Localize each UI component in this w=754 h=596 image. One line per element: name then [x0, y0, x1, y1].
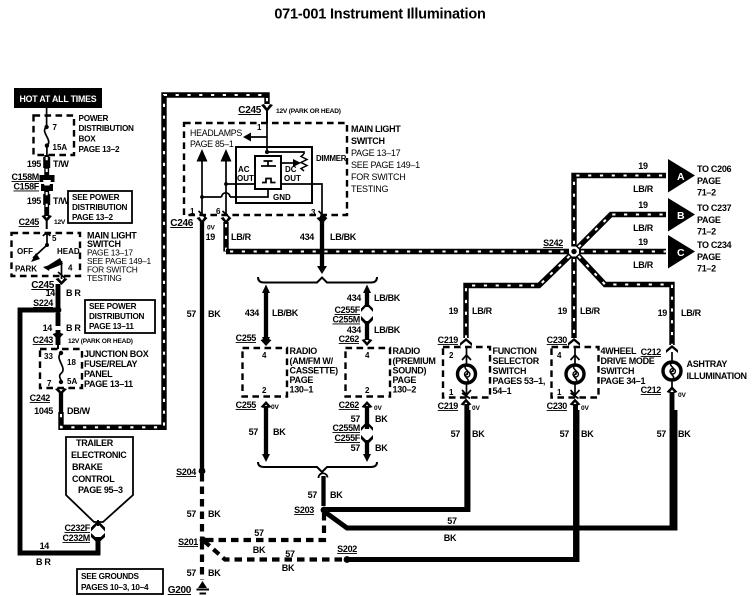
connector C230 (bottom): [547, 399, 590, 413]
svg-text:SWITCH: SWITCH: [601, 366, 635, 376]
svg-text:19: 19: [206, 232, 216, 242]
svg-text:57: 57: [560, 429, 570, 439]
svg-text:C158M: C158M: [11, 172, 39, 182]
svg-text:1: 1: [557, 388, 562, 397]
wire C245 to S224: [46, 284, 82, 311]
svg-text:434: 434: [300, 232, 314, 242]
svg-text:PAGES 53–1,: PAGES 53–1,: [493, 376, 546, 386]
hatched wire S242 to arrow C: [579, 237, 666, 270]
svg-text:PAGE 95–3: PAGE 95–3: [78, 485, 123, 495]
svg-text:BK: BK: [208, 309, 221, 319]
svg-text:57: 57: [657, 429, 667, 439]
svg-text:LB/R: LB/R: [633, 223, 654, 233]
svg-text:TESTING: TESTING: [351, 184, 389, 194]
svg-text:57: 57: [451, 429, 461, 439]
svg-text:SWITCH: SWITCH: [493, 366, 527, 376]
svg-text:19: 19: [638, 237, 648, 247]
svg-text:C219: C219: [438, 335, 459, 345]
svg-text:C232F: C232F: [64, 523, 90, 533]
wire brace to S203: [308, 473, 344, 506]
svg-text:LB/BK: LB/BK: [374, 293, 401, 303]
connector C245 (top center): [238, 104, 341, 123]
connector C246: [170, 217, 327, 232]
svg-text:2: 2: [262, 386, 267, 395]
svg-text:PAGE 13–17: PAGE 13–17: [351, 148, 401, 158]
wire C246-3 434 LB/BK: [300, 216, 357, 274]
arrow C to C234: [668, 235, 732, 274]
svg-text:54–1: 54–1: [493, 386, 512, 396]
svg-text:S201: S201: [178, 537, 198, 547]
svg-text:C230: C230: [547, 401, 568, 411]
see grounds box: [77, 569, 163, 594]
svg-text:B R: B R: [66, 323, 81, 333]
bulb function selector illumination: [458, 347, 476, 399]
svg-text:B R: B R: [36, 557, 51, 567]
svg-text:57: 57: [351, 443, 361, 453]
connector C262 (top): [339, 334, 373, 346]
svg-text:BK: BK: [472, 429, 485, 439]
svg-text:SELECTOR: SELECTOR: [493, 356, 540, 366]
svg-text:57: 57: [254, 528, 264, 538]
svg-text:5: 5: [52, 234, 57, 243]
svg-text:57: 57: [187, 309, 197, 319]
svg-text:130–1: 130–1: [290, 385, 314, 395]
svg-text:(AM/FM W/: (AM/FM W/: [290, 356, 334, 366]
svg-text:71–2: 71–2: [697, 188, 716, 198]
4wheel drive mode switch box: [552, 346, 655, 398]
connector C219 (top): [438, 335, 472, 346]
junction box fuse/relay panel: [40, 349, 149, 389]
connector C245 (below left switch): [31, 278, 67, 291]
wire 434 LB/BK lower to C262: [347, 321, 401, 340]
svg-text:S202: S202: [337, 544, 357, 554]
svg-text:LB/R: LB/R: [231, 232, 252, 242]
function selector switch box: [443, 346, 545, 398]
node junction on pin1 wire: [265, 150, 269, 154]
svg-text:C245: C245: [238, 105, 261, 116]
svg-text:T/W: T/W: [53, 196, 69, 206]
wire S224 branch to trailer brake control: [20, 310, 98, 567]
svg-text:OUT: OUT: [284, 174, 301, 183]
svg-text:195: 195: [27, 196, 41, 206]
svg-text:12V (PARK OR HEAD): 12V (PARK OR HEAD): [68, 338, 133, 345]
svg-text:CASSETTE): CASSETTE): [290, 366, 339, 376]
see power distribution page 13-2 box: [68, 191, 132, 223]
wire C212 57 BK: [657, 392, 692, 528]
connector C242: [30, 388, 67, 403]
fuse 5A in junction box: [44, 351, 77, 388]
svg-text:RADIO: RADIO: [290, 346, 318, 356]
svg-text:DISTRIBUTION: DISTRIBUTION: [89, 312, 145, 321]
svg-text:SEE POWER: SEE POWER: [89, 302, 137, 311]
svg-text:PAGE: PAGE: [697, 176, 721, 186]
svg-text:C255: C255: [236, 400, 257, 410]
svg-text:7: 7: [47, 379, 52, 388]
svg-text:1045: 1045: [34, 406, 53, 416]
svg-text:BOX: BOX: [79, 135, 97, 144]
svg-text:C246: C246: [170, 218, 193, 229]
svg-text:19: 19: [658, 308, 668, 318]
connector C232F / C232M: [62, 520, 105, 554]
connector C245 (top left): [19, 215, 66, 229]
switch contacts OFF/PARK/HEAD: [15, 233, 80, 279]
radio (premium sound) box: [346, 346, 436, 397]
svg-text:MAIN LIGHT: MAIN LIGHT: [351, 124, 401, 134]
contact symbols inside inner box: [261, 161, 276, 183]
connector C255F / C255M: [332, 303, 373, 327]
GND wire to pin 1 line with hop: [200, 189, 268, 199]
wire S203 to C212: [325, 410, 675, 543]
headlamp arrow left: [197, 149, 208, 216]
svg-text:OFF: OFF: [17, 247, 33, 256]
DC OUT arrow: [281, 159, 301, 167]
svg-text:BK: BK: [273, 427, 286, 437]
svg-text:ELECTRONIC: ELECTRONIC: [71, 450, 127, 460]
svg-text:DRIVE MODE: DRIVE MODE: [601, 356, 655, 366]
arrow B to C237: [668, 198, 732, 237]
wire C158 to C245: [27, 190, 70, 216]
connector C212 (top): [641, 345, 678, 357]
wire 434 LB/BK to radio 1: [245, 285, 299, 346]
svg-text:3: 3: [311, 208, 316, 217]
hot at all times box: [14, 88, 102, 108]
svg-text:DIMMER: DIMMER: [316, 154, 347, 163]
svg-text:PAGE 13–11: PAGE 13–11: [89, 322, 134, 331]
svg-text:BRAKE: BRAKE: [72, 462, 103, 472]
svg-text:ILLUMINATION: ILLUMINATION: [687, 371, 747, 381]
svg-text:FOR SWITCH: FOR SWITCH: [351, 172, 406, 182]
svg-text:PARK: PARK: [15, 265, 37, 274]
svg-text:33: 33: [44, 352, 53, 361]
svg-text:7: 7: [53, 123, 58, 132]
splice S224: [33, 298, 61, 313]
svg-text:2: 2: [449, 351, 454, 360]
svg-text:6: 6: [216, 207, 221, 216]
hatched wire S242 to arrow B: [578, 200, 667, 248]
svg-text:BK: BK: [208, 568, 221, 578]
svg-text:LB/BK: LB/BK: [330, 232, 357, 242]
connector C219 (bottom): [438, 399, 481, 413]
svg-text:(PREMIUM: (PREMIUM: [393, 356, 436, 366]
svg-text:FUSE/RELAY: FUSE/RELAY: [84, 359, 137, 369]
svg-text:TO C234: TO C234: [697, 240, 732, 250]
svg-text:PAGE 13–2: PAGE 13–2: [72, 213, 114, 222]
svg-text:4: 4: [262, 351, 267, 360]
svg-text:5A: 5A: [67, 377, 77, 386]
connector C230 (top): [547, 335, 580, 346]
hatched wire S242 to C219: [449, 255, 571, 338]
svg-text:G200: G200: [168, 585, 192, 596]
svg-text:BK: BK: [375, 443, 388, 453]
svg-text:POWER: POWER: [79, 114, 109, 123]
svg-text:HOT AT ALL TIMES: HOT AT ALL TIMES: [20, 94, 97, 104]
svg-text:PAGE: PAGE: [290, 375, 314, 385]
bulb 4wd mode switch illumination: [566, 347, 584, 399]
svg-text:C262: C262: [339, 400, 360, 410]
svg-text:C232M: C232M: [62, 533, 90, 543]
svg-text:1: 1: [449, 388, 454, 397]
wire S202 to C230: [347, 410, 577, 560]
hatched wire S242 to C212: [578, 255, 702, 345]
svg-text:19: 19: [638, 161, 648, 171]
svg-text:14: 14: [40, 541, 50, 551]
arrow A to C206: [668, 159, 732, 198]
main light switch (top center) box: [184, 123, 420, 215]
svg-text:19: 19: [449, 306, 459, 316]
svg-text:071-001 Instrument Illuminatio: 071-001 Instrument Illumination: [274, 7, 485, 23]
AC wire to pin 6 line: [224, 182, 255, 186]
wire pin1 into switch with branch arrow: [243, 116, 267, 152]
svg-text:2: 2: [365, 386, 370, 395]
svg-text:C243: C243: [33, 335, 54, 345]
svg-text:LB/R: LB/R: [633, 260, 654, 270]
svg-text:71–2: 71–2: [697, 227, 716, 237]
svg-text:TRAILER: TRAILER: [76, 438, 114, 448]
svg-text:ASHTRAY: ASHTRAY: [687, 359, 728, 369]
svg-text:SOUND): SOUND): [393, 366, 427, 376]
hatched wire S242 to arrow A: [574, 161, 666, 247]
svg-text:PAGES 10–3, 10–4: PAGES 10–3, 10–4: [81, 583, 149, 592]
brace split above radios: [258, 277, 377, 283]
svg-text:0V: 0V: [271, 404, 279, 411]
wire 434 LB/BK upper to C255F: [347, 285, 401, 308]
svg-text:57: 57: [447, 516, 457, 526]
splice S202: [337, 544, 357, 563]
svg-text:BK: BK: [282, 563, 295, 573]
svg-text:0V: 0V: [207, 225, 215, 232]
svg-text:BK: BK: [208, 509, 221, 519]
svg-text:T/W: T/W: [53, 159, 69, 169]
svg-text:C242: C242: [30, 393, 51, 403]
svg-text:C230: C230: [547, 335, 568, 345]
wire C219 57 BK: [451, 404, 486, 510]
svg-text:BK: BK: [330, 490, 343, 500]
splice S242: [543, 238, 577, 254]
svg-text:SEE GROUNDS: SEE GROUNDS: [81, 572, 140, 581]
wire radio1 57 BK: [249, 406, 287, 462]
svg-text:195: 195: [27, 159, 41, 169]
svg-text:BK: BK: [678, 429, 691, 439]
ground wire S201 to G200: [187, 542, 222, 580]
wire DC out to pin 3: [281, 184, 322, 214]
wire S203 to C219: [324, 410, 468, 510]
connector C158M / C158F: [11, 172, 54, 192]
svg-text:C255F: C255F: [334, 433, 360, 443]
hatched wire pin6 to splice S242: [226, 249, 569, 254]
svg-text:BK: BK: [253, 545, 266, 555]
svg-text:57: 57: [308, 490, 318, 500]
pins 1 6 3 bottom: [190, 207, 326, 218]
svg-text:C219: C219: [438, 401, 459, 411]
svg-text:PAGE 13–11: PAGE 13–11: [84, 379, 133, 389]
svg-text:1: 1: [257, 123, 262, 132]
dimmer rheostat: [267, 152, 347, 171]
svg-text:DISTRIBUTION: DISTRIBUTION: [72, 203, 128, 212]
svg-text:12V: 12V: [54, 219, 66, 226]
connector C212 (bottom): [641, 385, 687, 399]
svg-text:LB/R: LB/R: [633, 184, 654, 194]
hatched wire S242 to C230: [558, 257, 601, 339]
wire 1045 DB/W from C242: [34, 393, 90, 416]
ground wire S203 to S201: [205, 513, 324, 555]
svg-text:C212: C212: [641, 385, 662, 395]
svg-text:C: C: [677, 247, 685, 259]
svg-text:0V: 0V: [581, 405, 589, 412]
svg-text:A: A: [677, 171, 685, 183]
svg-text:SWITCH: SWITCH: [351, 136, 385, 146]
svg-text:JUNCTION BOX: JUNCTION BOX: [84, 349, 149, 359]
svg-text:PAGE: PAGE: [393, 375, 417, 385]
splice S201: [178, 537, 206, 547]
svg-text:4: 4: [68, 264, 73, 273]
svg-text:SEE POWER: SEE POWER: [72, 193, 120, 202]
svg-text:4WHEEL: 4WHEEL: [601, 346, 638, 356]
headlamp arrow right: [221, 149, 232, 216]
svg-text:BK: BK: [375, 414, 388, 424]
trailer electronic brake control: [66, 437, 133, 522]
svg-text:12V (PARK OR HEAD): 12V (PARK OR HEAD): [276, 108, 341, 115]
svg-text:GND: GND: [273, 193, 291, 202]
ground wire S201 to S202: [204, 541, 345, 573]
svg-text:DC: DC: [285, 165, 297, 174]
svg-text:4: 4: [557, 351, 562, 360]
svg-text:S242: S242: [543, 238, 563, 248]
svg-text:AC: AC: [238, 165, 250, 174]
brace combine below radios: [258, 462, 377, 472]
svg-text:14: 14: [46, 288, 56, 298]
svg-text:14: 14: [43, 323, 53, 333]
hatched wire C242 to C245 (hot feed): [61, 95, 267, 427]
power distribution box: [34, 114, 135, 155]
splice S203: [294, 505, 327, 515]
svg-text:57: 57: [285, 549, 295, 559]
connector C255 (bottom): [236, 400, 280, 411]
svg-text:C255M: C255M: [332, 423, 360, 433]
wire C230 57 BK: [560, 404, 595, 560]
svg-text:HEAD: HEAD: [57, 247, 80, 256]
svg-text:BK: BK: [444, 533, 457, 543]
svg-text:434: 434: [347, 293, 361, 303]
svg-text:HEADLAMPS: HEADLAMPS: [190, 128, 242, 138]
svg-text:BK: BK: [581, 429, 594, 439]
ground G200: [168, 581, 209, 596]
svg-text:19: 19: [558, 306, 568, 316]
fuse 15A in power distribution box: [44, 108, 67, 155]
svg-text:57: 57: [249, 427, 259, 437]
svg-text:0V: 0V: [374, 405, 382, 412]
svg-text:LB/BK: LB/BK: [374, 325, 401, 335]
svg-text:DISTRIBUTION: DISTRIBUTION: [79, 124, 135, 133]
svg-text:C255F: C255F: [334, 305, 360, 315]
svg-text:18: 18: [67, 358, 76, 367]
svg-text:TESTING: TESTING: [87, 273, 122, 283]
svg-text:SEE PAGE 149–1: SEE PAGE 149–1: [351, 160, 420, 170]
connector C262 (bottom): [339, 400, 383, 412]
svg-text:S203: S203: [294, 505, 314, 515]
svg-text:15A: 15A: [53, 143, 68, 152]
svg-text:LB/R: LB/R: [580, 306, 601, 316]
AC OUT / DC OUT / GND labels: [237, 165, 301, 202]
svg-text:S224: S224: [33, 298, 53, 308]
svg-text:0V: 0V: [472, 405, 480, 412]
svg-text:TO C206: TO C206: [697, 164, 732, 174]
bulb ashtray illumination: [663, 352, 747, 388]
svg-text:LB/R: LB/R: [681, 308, 702, 318]
wire S224 to C243: [43, 313, 82, 345]
main light switch (left) box: [12, 231, 152, 284]
svg-text:LB/BK: LB/BK: [272, 308, 299, 318]
svg-text:57: 57: [187, 509, 197, 519]
ground wire S204 to S201: [187, 474, 222, 538]
svg-text:71–2: 71–2: [697, 264, 716, 274]
svg-text:OUT: OUT: [237, 174, 254, 183]
wire C246-6 19 LB/R: [206, 222, 252, 252]
connector C255 (top): [236, 333, 272, 346]
wire C246-1 57 BK down to S204: [187, 222, 222, 469]
svg-text:CONTROL: CONTROL: [72, 474, 115, 484]
svg-text:C245: C245: [19, 217, 40, 227]
svg-text:1: 1: [190, 207, 195, 216]
svg-text:C255: C255: [236, 333, 257, 343]
svg-text:434: 434: [245, 308, 259, 318]
svg-text:S204: S204: [176, 467, 196, 477]
see power distribution page 13-11 box: [85, 300, 155, 333]
svg-text:PANEL: PANEL: [84, 369, 113, 379]
svg-text:TO C237: TO C237: [697, 203, 732, 213]
svg-text:PAGE 85–1: PAGE 85–1: [190, 139, 234, 149]
svg-text:PAGE 34–1: PAGE 34–1: [601, 376, 646, 386]
svg-text:B: B: [677, 210, 685, 222]
wire 57 BK to brace: [351, 440, 389, 462]
headlamps label: [190, 128, 242, 149]
splice S204: [176, 467, 205, 477]
svg-text:PAGE: PAGE: [697, 252, 721, 262]
svg-text:PAGE: PAGE: [697, 215, 721, 225]
switch internals outer box: [236, 147, 312, 203]
connector C255M / C255F (bottom pair): [332, 422, 373, 446]
svg-text:C158F: C158F: [13, 182, 39, 192]
svg-text:PAGE 13–2: PAGE 13–2: [79, 145, 121, 154]
svg-text:0V: 0V: [678, 392, 686, 399]
connector C243: [33, 333, 133, 349]
svg-text:130–2: 130–2: [393, 385, 417, 395]
svg-text:B R: B R: [66, 288, 81, 298]
svg-text:FUNCTION: FUNCTION: [493, 346, 537, 356]
switch internals inner box: [255, 156, 281, 189]
svg-text:4: 4: [365, 351, 370, 360]
wire C262 57 BK: [351, 406, 389, 429]
svg-text:RADIO: RADIO: [393, 346, 421, 356]
radio (am/fm w/cassette) box: [243, 346, 339, 397]
svg-text:LB/R: LB/R: [472, 306, 493, 316]
wire fuse to C158: [27, 155, 70, 176]
svg-text:C255M: C255M: [332, 315, 360, 325]
svg-text:DB/W: DB/W: [67, 406, 91, 416]
svg-text:19: 19: [638, 200, 648, 210]
svg-text:C212: C212: [641, 347, 662, 357]
svg-text:C262: C262: [339, 334, 360, 344]
svg-text:57: 57: [187, 568, 197, 578]
